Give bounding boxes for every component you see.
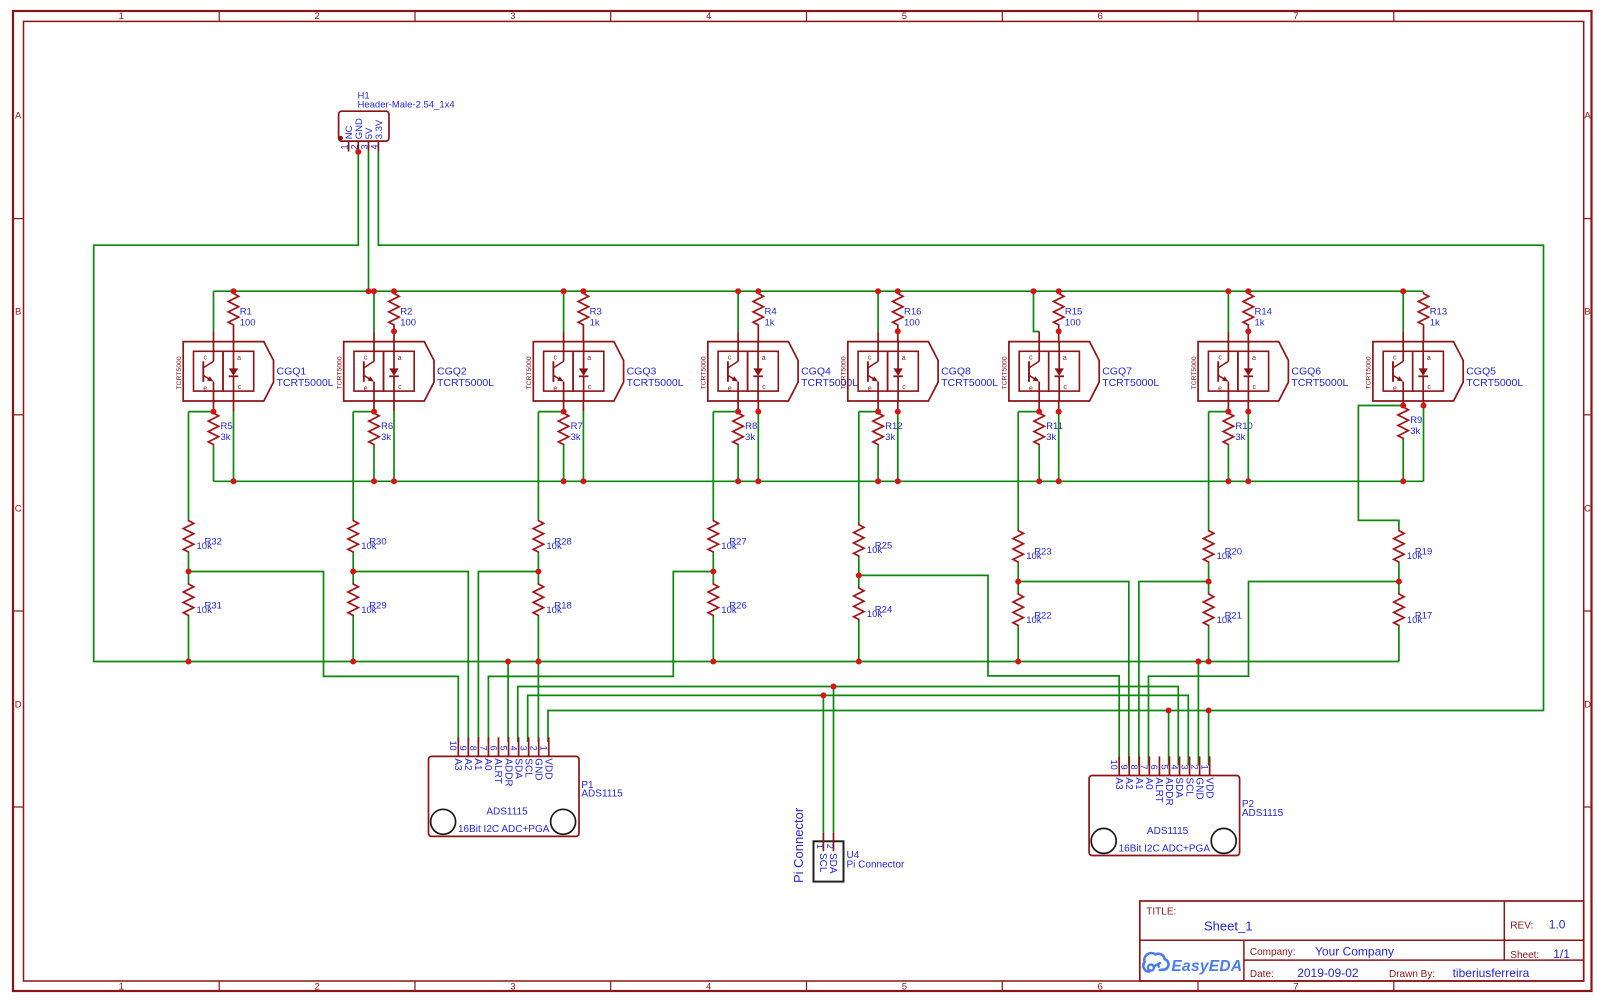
svg-text:R9: R9 xyxy=(1410,415,1422,426)
junctions on sensor row bottom rail xyxy=(231,478,1407,484)
svg-text:Date:: Date: xyxy=(1250,969,1274,980)
optocoupler sensor CGQ4 TCRT5000L xyxy=(701,331,859,411)
svg-text:Sheet_1: Sheet_1 xyxy=(1204,919,1252,934)
P2 pin 8 A1 xyxy=(1129,756,1144,790)
wire R12 bottom to sensor row rail xyxy=(877,446,879,482)
svg-text:4: 4 xyxy=(508,746,518,751)
svg-text:TCRT5000L: TCRT5000L xyxy=(437,377,494,389)
svg-text:A2: A2 xyxy=(462,758,473,771)
svg-text:SDA: SDA xyxy=(512,758,523,779)
junctions on GND rail xyxy=(186,659,1212,665)
wire CGQ5 diode cathode to sensor row rail xyxy=(1423,406,1425,482)
svg-text:10: 10 xyxy=(448,741,458,751)
svg-text:Sheet:: Sheet: xyxy=(1510,950,1539,961)
optocoupler sensor CGQ3 TCRT5000L xyxy=(526,331,684,411)
wire R27/R26 tap to P1 A0 xyxy=(488,572,713,743)
P1 pin 8 A1 xyxy=(468,737,483,771)
P2 pin 7 A0 xyxy=(1139,756,1154,790)
svg-text:SCL: SCL xyxy=(817,853,828,873)
wire divider tap to R22 xyxy=(1017,582,1019,593)
svg-text:ALRT: ALRT xyxy=(1153,777,1164,802)
junction H1 GND pin xyxy=(355,149,361,155)
wire R23 to divider tap xyxy=(1017,563,1019,581)
svg-text:SDA: SDA xyxy=(1173,777,1184,798)
U4 pin 2 SDA xyxy=(825,832,838,874)
svg-text:ALRT: ALRT xyxy=(492,758,503,783)
wire R7 bottom to sensor row rail xyxy=(563,446,565,482)
wire R31 bottom to GND rail xyxy=(188,617,190,662)
wire 5V rail drop to CGQ1 collector xyxy=(213,291,215,331)
resistor R8 3k xyxy=(733,412,757,446)
svg-text:VDD: VDD xyxy=(542,758,553,779)
connector U4 Pi Connector body xyxy=(814,841,905,881)
svg-text:R13: R13 xyxy=(1430,307,1447,318)
svg-text:C: C xyxy=(15,503,22,514)
wire 5V rail drop to CGQ5 collector xyxy=(1402,291,1404,331)
svg-text:5: 5 xyxy=(498,746,508,751)
resistor R10 3k xyxy=(1223,412,1253,446)
wire 5V rail drop to CGQ2 collector xyxy=(373,291,375,331)
wire 5V rail drop to CGQ7 collector xyxy=(1034,291,1040,331)
svg-text:ADS1115: ADS1115 xyxy=(1147,826,1189,837)
svg-text:B: B xyxy=(15,307,21,318)
svg-text:3: 3 xyxy=(510,982,515,993)
junctions at divider taps xyxy=(186,569,1402,585)
wire P2 ADDR to VDD line xyxy=(1168,711,1170,766)
svg-text:1: 1 xyxy=(1199,765,1209,770)
svg-text:REV:: REV: xyxy=(1510,921,1533,932)
svg-text:3: 3 xyxy=(1179,765,1189,770)
resistor R15 100 xyxy=(1054,292,1083,342)
wire R21 bottom to GND rail xyxy=(1208,627,1210,662)
svg-text:CGQ8: CGQ8 xyxy=(941,366,971,378)
svg-text:A: A xyxy=(1584,111,1591,122)
EasyEDA logo xyxy=(1143,953,1242,975)
wire CGQ7 emitter to divider column xyxy=(1018,411,1039,413)
svg-text:A3: A3 xyxy=(1113,777,1124,790)
svg-text:7: 7 xyxy=(478,746,488,751)
svg-text:R3: R3 xyxy=(590,307,602,318)
svg-text:10k: 10k xyxy=(1407,551,1423,562)
svg-text:R1: R1 xyxy=(240,307,252,318)
wire CGQ8 emitter to divider column xyxy=(859,411,878,413)
P2 pin 4 SDA xyxy=(1169,756,1184,798)
svg-text:2: 2 xyxy=(529,746,539,751)
svg-text:100: 100 xyxy=(1065,318,1081,329)
P1 pin 1 VDD xyxy=(539,737,554,779)
svg-text:10k: 10k xyxy=(546,541,562,552)
svg-text:1: 1 xyxy=(539,746,549,751)
svg-text:16Bit I2C ADC+PGA: 16Bit I2C ADC+PGA xyxy=(458,824,550,835)
svg-text:4: 4 xyxy=(706,982,711,993)
resistor R3 1k xyxy=(578,292,602,342)
svg-text:5: 5 xyxy=(902,982,907,993)
svg-text:R11: R11 xyxy=(1046,421,1063,432)
svg-text:2: 2 xyxy=(1189,765,1199,770)
svg-text:tiberiusferreira: tiberiusferreira xyxy=(1453,966,1530,980)
P2 pin 9 A2 xyxy=(1119,756,1134,790)
wire sensor emitter feed down to R30 xyxy=(352,412,354,519)
H1 pin 1 NC xyxy=(340,125,356,151)
wire divider tap to R29 xyxy=(352,572,354,583)
junctions below top resistors xyxy=(391,328,1251,334)
resistor R27 10k xyxy=(708,519,747,553)
svg-text:TCRT5000L: TCRT5000L xyxy=(277,377,334,389)
svg-text:10k: 10k xyxy=(197,541,213,552)
wire divider tap to R17 xyxy=(1398,582,1400,593)
optocoupler sensor CGQ7 TCRT5000L xyxy=(1002,332,1160,412)
title block texts xyxy=(1146,907,1570,981)
resistor R4 1k xyxy=(753,292,777,342)
optocoupler sensor CGQ1 TCRT5000L xyxy=(176,331,334,411)
svg-text:3.3V: 3.3V xyxy=(374,119,385,139)
svg-text:R16: R16 xyxy=(904,307,921,318)
svg-text:R6: R6 xyxy=(381,421,393,432)
wire R19/R17 tap to P2 A0 xyxy=(1149,582,1399,766)
wire 5V rail drop to CGQ4 collector xyxy=(737,291,739,331)
svg-text:A0: A0 xyxy=(1143,777,1154,790)
junctions on I2C bus at U4 xyxy=(820,684,836,699)
svg-text:3k: 3k xyxy=(745,432,755,443)
svg-text:7: 7 xyxy=(1139,765,1149,770)
wire R5 bottom to sensor row rail xyxy=(213,446,215,482)
wire 5V rail drop to CGQ3 collector xyxy=(563,291,565,331)
svg-text:10k: 10k xyxy=(1407,615,1423,626)
svg-text:3: 3 xyxy=(518,746,528,751)
wire R20 to divider tap xyxy=(1208,563,1210,581)
P1 pin 2 GND xyxy=(529,737,544,780)
wire R28 to divider tap xyxy=(537,553,539,571)
optocoupler sensor CGQ2 TCRT5000L xyxy=(337,331,495,411)
svg-text:GND: GND xyxy=(532,758,543,780)
svg-text:3k: 3k xyxy=(571,432,581,443)
svg-text:10k: 10k xyxy=(1217,551,1233,562)
svg-text:R8: R8 xyxy=(745,421,757,432)
wire sensor emitter feed down to R32 xyxy=(188,412,190,519)
H1 pin 3 5V xyxy=(360,127,376,152)
svg-text:1k: 1k xyxy=(590,318,600,329)
wire R10 bottom to sensor row rail xyxy=(1227,446,1229,482)
svg-text:2: 2 xyxy=(314,982,319,993)
svg-text:100: 100 xyxy=(240,318,256,329)
resistor R18 10k xyxy=(533,583,572,617)
svg-text:C: C xyxy=(1584,503,1591,514)
svg-text:3k: 3k xyxy=(221,432,231,443)
resistor R16 100 xyxy=(893,292,922,342)
ruler column numbers bottom xyxy=(119,982,1299,993)
svg-text:3k: 3k xyxy=(885,432,895,443)
wire R30 to divider tap xyxy=(352,553,354,571)
svg-text:ADS1115: ADS1115 xyxy=(1242,808,1284,819)
svg-text:10k: 10k xyxy=(361,605,377,616)
svg-text:10k: 10k xyxy=(721,605,737,616)
wire R25/R24 tap to P2 A3 xyxy=(859,575,1119,765)
svg-text:GND: GND xyxy=(1193,777,1204,799)
svg-text:R12: R12 xyxy=(885,421,902,432)
svg-text:100: 100 xyxy=(904,318,920,329)
svg-text:1/1: 1/1 xyxy=(1553,947,1570,961)
svg-text:6: 6 xyxy=(1149,765,1159,770)
wire 5V rail across sensor row xyxy=(214,290,1424,292)
svg-text:9: 9 xyxy=(458,746,468,751)
resistor R20 10k xyxy=(1203,529,1242,563)
svg-text:EasyEDA: EasyEDA xyxy=(1171,958,1242,975)
wire CGQ6 emitter to divider column xyxy=(1209,411,1229,413)
P1 pin 3 SCL xyxy=(518,737,533,778)
svg-text:1: 1 xyxy=(119,11,124,22)
wire R32/R31 tap to P1 A3 xyxy=(189,572,459,743)
svg-text:10k: 10k xyxy=(867,609,883,620)
svg-text:3: 3 xyxy=(360,144,370,149)
svg-text:CGQ3: CGQ3 xyxy=(627,366,657,378)
svg-text:R2: R2 xyxy=(400,307,412,318)
resistor R7 3k xyxy=(558,412,582,446)
svg-text:A: A xyxy=(15,111,22,122)
svg-text:CGQ2: CGQ2 xyxy=(437,366,467,378)
svg-text:R14: R14 xyxy=(1255,307,1272,318)
junctions at sensor emitters xyxy=(211,403,1427,415)
svg-text:B: B xyxy=(1584,307,1590,318)
resistor R24 10k xyxy=(854,587,893,621)
svg-text:1k: 1k xyxy=(1255,318,1265,329)
wire R20/R21 tap to P2 A1 xyxy=(1139,582,1209,766)
P1 pin 6 ALRT xyxy=(488,737,503,783)
P1 pin 5 ADDR xyxy=(498,737,513,786)
svg-text:2019-09-02: 2019-09-02 xyxy=(1297,966,1359,980)
svg-text:1k: 1k xyxy=(765,318,775,329)
wire R19 to divider tap xyxy=(1398,563,1400,581)
wire sensor row bottom rail xyxy=(214,480,1424,482)
resistor R32 10k xyxy=(183,519,222,553)
svg-text:R5: R5 xyxy=(221,421,233,432)
wire P1 ADDR to GND rail xyxy=(507,662,509,743)
P2 pin 5 ADDR xyxy=(1159,756,1174,805)
svg-text:1: 1 xyxy=(340,144,350,149)
svg-text:VDD: VDD xyxy=(1203,777,1214,798)
P1 pin 9 A2 xyxy=(458,737,473,771)
wire U4 SDA drop xyxy=(833,687,835,833)
svg-text:2: 2 xyxy=(349,144,359,149)
wire R29 bottom to GND rail xyxy=(352,617,354,662)
svg-text:10k: 10k xyxy=(1217,615,1233,626)
svg-text:ADDR: ADDR xyxy=(1163,777,1174,805)
wire CGQ6 diode cathode to sensor row rail xyxy=(1247,412,1249,482)
wire CGQ4 emitter to divider column xyxy=(713,411,738,413)
svg-text:A1: A1 xyxy=(472,758,483,771)
wire P2 VDD to VDD line xyxy=(1208,711,1210,766)
svg-text:TCRT5000L: TCRT5000L xyxy=(801,377,858,389)
P2 pin 3 SCL xyxy=(1179,756,1194,797)
svg-text:CGQ4: CGQ4 xyxy=(801,366,831,378)
wire R24 bottom to GND rail xyxy=(858,621,860,662)
svg-text:Company:: Company: xyxy=(1250,947,1296,958)
svg-text:9: 9 xyxy=(1119,765,1129,770)
svg-text:10k: 10k xyxy=(721,541,737,552)
wire sensor emitter feed down to R23 xyxy=(1017,412,1019,529)
resistor R22 10k xyxy=(1013,593,1052,627)
junctions on VDD line xyxy=(1166,708,1212,714)
junctions on 5V rail xyxy=(231,288,1407,294)
svg-text:3k: 3k xyxy=(1410,426,1420,437)
svg-text:4: 4 xyxy=(369,144,379,149)
resistor R12 3k xyxy=(873,412,903,446)
optocoupler sensor CGQ5 TCRT5000L xyxy=(1366,331,1524,405)
resistor R1 100 xyxy=(228,292,255,342)
wire R32 to divider tap xyxy=(188,553,190,571)
resistor R30 10k xyxy=(348,519,387,553)
wire divider tap to R18 xyxy=(537,572,539,583)
svg-text:100: 100 xyxy=(400,318,416,329)
wire divider tap to R31 xyxy=(188,572,190,583)
svg-text:ADS1115: ADS1115 xyxy=(486,807,528,818)
svg-text:10k: 10k xyxy=(197,605,213,616)
wire sensor emitter feed down to R28 xyxy=(537,412,539,519)
svg-text:D: D xyxy=(1584,700,1591,711)
title block frame xyxy=(1140,901,1584,981)
wire R26 bottom to GND rail xyxy=(712,617,714,662)
resistor R28 10k xyxy=(533,519,572,553)
resistor R2 100 xyxy=(389,292,416,342)
wire 5V rail drop to CGQ6 collector xyxy=(1227,291,1229,331)
svg-text:Drawn By:: Drawn By: xyxy=(1389,969,1435,980)
svg-text:1.0: 1.0 xyxy=(1549,918,1566,932)
wire R8 bottom to sensor row rail xyxy=(737,446,739,482)
IC P1 ADS1115 module body xyxy=(429,756,624,836)
svg-text:16Bit I2C ADC+PGA: 16Bit I2C ADC+PGA xyxy=(1119,843,1211,854)
svg-text:1: 1 xyxy=(815,844,825,849)
svg-text:10k: 10k xyxy=(546,605,562,616)
optocoupler sensor CGQ8 TCRT5000L xyxy=(841,331,999,411)
resistor R13 1k xyxy=(1418,292,1447,342)
svg-text:TCRT5000L: TCRT5000L xyxy=(1291,377,1348,389)
ruler column numbers top xyxy=(119,11,1299,22)
svg-text:A3: A3 xyxy=(452,758,463,771)
wire R18 bottom to GND rail xyxy=(537,617,539,662)
wire CGQ3 emitter to divider column xyxy=(538,411,563,413)
svg-text:1: 1 xyxy=(119,982,124,993)
wire CGQ1 emitter to divider column xyxy=(189,411,214,413)
P2 pin 2 GND xyxy=(1189,756,1204,799)
wire CGQ4 diode cathode to sensor row rail xyxy=(757,412,759,482)
wire R22 bottom to GND rail xyxy=(1017,627,1019,662)
resistor R19 10k xyxy=(1394,529,1433,563)
wire P2 GND to GND rail xyxy=(1197,662,1199,766)
U4 pin 1 SCL xyxy=(815,832,828,873)
svg-text:Header-Male-2.54_1x4: Header-Male-2.54_1x4 xyxy=(358,99,455,110)
svg-text:6: 6 xyxy=(1098,982,1103,993)
svg-text:6: 6 xyxy=(488,746,498,751)
wire divider tap to R24 xyxy=(858,575,860,586)
svg-text:A0: A0 xyxy=(482,758,493,771)
svg-text:4: 4 xyxy=(706,11,711,22)
P1 pin 4 SDA xyxy=(508,737,523,779)
svg-text:3: 3 xyxy=(510,11,515,22)
P2 pin 1 VDD xyxy=(1199,756,1214,798)
H1 pin 2 GND xyxy=(349,118,365,152)
wire sensor emitter feed down to R20 xyxy=(1208,412,1210,529)
svg-text:TCRT5000L: TCRT5000L xyxy=(1102,377,1159,389)
wire GND from H1 pin2 to left bus and bottom GND rail xyxy=(94,152,1399,662)
svg-text:CGQ6: CGQ6 xyxy=(1291,366,1321,378)
resistor R14 1k xyxy=(1243,292,1272,342)
wire R25 to divider tap xyxy=(858,557,860,575)
svg-text:8: 8 xyxy=(1129,765,1139,770)
wire SCL bus P1 to U4 to P2 xyxy=(528,695,1189,765)
svg-text:TITLE:: TITLE: xyxy=(1146,907,1176,918)
svg-text:4: 4 xyxy=(1169,765,1179,770)
wire CGQ3 diode cathode to sensor row rail xyxy=(582,412,584,482)
resistor R25 10k xyxy=(854,523,893,557)
svg-text:Pi Connector: Pi Connector xyxy=(791,807,806,883)
svg-text:8: 8 xyxy=(468,746,478,751)
wire CGQ2 emitter to divider column xyxy=(353,411,374,413)
wire CGQ1 diode cathode to sensor row rail xyxy=(233,412,235,482)
wire CGQ7 diode cathode to sensor row rail xyxy=(1058,412,1060,482)
svg-text:ADDR: ADDR xyxy=(502,758,513,786)
svg-text:6: 6 xyxy=(1098,11,1103,22)
svg-text:5: 5 xyxy=(1159,765,1169,770)
svg-text:3k: 3k xyxy=(381,432,391,443)
svg-text:Pi Connector: Pi Connector xyxy=(847,859,905,870)
resistor R17 10k xyxy=(1394,593,1433,627)
svg-text:CGQ5: CGQ5 xyxy=(1466,366,1496,378)
wire R9 bottom to sensor row rail xyxy=(1402,440,1404,482)
wire 3.3V from H1 pin4 right side down to VDD line and P1 VDD xyxy=(378,152,1543,742)
wire R11 bottom to sensor row rail xyxy=(1038,446,1040,482)
svg-text:10k: 10k xyxy=(1026,615,1042,626)
svg-text:CGQ1: CGQ1 xyxy=(277,366,307,378)
svg-text:SDA: SDA xyxy=(827,853,838,874)
ruler row letters xyxy=(15,111,1592,711)
svg-text:7: 7 xyxy=(1293,982,1298,993)
resistor R5 3k xyxy=(208,412,232,446)
wire CGQ5 emitter to divider column xyxy=(1358,406,1403,530)
H1 pin1 marker dot xyxy=(339,136,343,140)
svg-text:2: 2 xyxy=(314,11,319,22)
svg-text:2: 2 xyxy=(825,844,835,849)
svg-text:R7: R7 xyxy=(571,421,583,432)
svg-text:10: 10 xyxy=(1109,760,1119,770)
resistor R23 10k xyxy=(1013,529,1052,563)
svg-text:TCRT5000L: TCRT5000L xyxy=(627,377,684,389)
wire R23/R22 tap to P2 A2 xyxy=(1018,582,1129,766)
resistor R29 10k xyxy=(348,583,387,617)
resistor R6 3k xyxy=(369,412,393,446)
svg-text:ADS1115: ADS1115 xyxy=(581,789,623,800)
resistor R21 10k xyxy=(1203,593,1242,627)
P2 pin 6 ALRT xyxy=(1149,756,1164,802)
svg-text:10k: 10k xyxy=(361,541,377,552)
wire sensor emitter feed down to R25 xyxy=(858,412,860,523)
svg-text:7: 7 xyxy=(1293,11,1298,22)
wire R6 bottom to sensor row rail xyxy=(373,446,375,482)
svg-text:R4: R4 xyxy=(765,307,777,318)
svg-text:CGQ7: CGQ7 xyxy=(1102,366,1132,378)
resistor R11 3k xyxy=(1034,412,1063,446)
optocoupler sensor CGQ6 TCRT5000L xyxy=(1191,331,1349,411)
wire divider tap to R26 xyxy=(712,572,714,583)
IC P2 ADS1115 module body xyxy=(1089,776,1284,856)
svg-text:10k: 10k xyxy=(1026,551,1042,562)
svg-text:5: 5 xyxy=(902,11,907,22)
wire U4 SCL drop xyxy=(822,695,824,832)
resistor R31 10k xyxy=(183,583,222,617)
H1 pin 4 3.3V xyxy=(369,119,385,152)
P1 pin 10 A3 xyxy=(448,737,463,771)
wire 5V rail drop to CGQ8 collector xyxy=(877,291,879,331)
P2 pin 10 A3 xyxy=(1109,756,1124,790)
svg-text:TCRT5000L: TCRT5000L xyxy=(1466,377,1523,389)
